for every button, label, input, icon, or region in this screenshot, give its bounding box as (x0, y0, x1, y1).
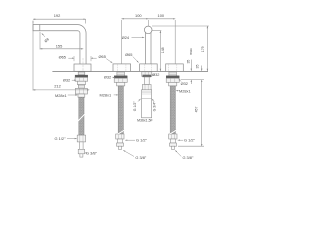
svg-text:G 1/2": G 1/2" (133, 101, 137, 112)
dim 192 (33, 19, 86, 23)
svg-text:M28x1: M28x1 (179, 89, 191, 94)
tip cap (32, 24, 34, 31)
deck line (52, 70, 208, 72)
spout circle (front) (144, 26, 152, 34)
dim 179 (152, 26, 209, 71)
svg-text:212: 212 (54, 84, 61, 89)
svg-text:179: 179 (201, 46, 205, 52)
front flange right (166, 64, 184, 72)
front column (145, 32, 151, 64)
dim 155 (40, 32, 83, 50)
svg-text:155: 155 (56, 44, 63, 49)
svg-text:Ø32: Ø32 (63, 78, 70, 83)
svg-text:35: 35 (187, 60, 191, 64)
side connector below nut (78, 94, 85, 97)
svg-text:M36x1,5F: M36x1,5F (137, 118, 153, 122)
svg-text:Ø24: Ø24 (122, 35, 130, 40)
svg-text:G 3/8": G 3/8" (135, 155, 147, 160)
svg-text:35: 35 (196, 65, 200, 69)
svg-text:Ø65: Ø65 (99, 54, 106, 59)
side G1/2 fitting (77, 135, 85, 142)
side G3/8 nut (78, 149, 84, 154)
dim 212 (33, 21, 89, 91)
svg-text:Ø65: Ø65 (59, 54, 66, 59)
svg-text:G 3/8": G 3/8" (182, 155, 194, 160)
svg-text:457: 457 (195, 107, 199, 113)
dim 100 100 (122, 19, 176, 64)
svg-text:Ø65: Ø65 (125, 52, 132, 57)
hidden lines in flanges (118, 64, 177, 71)
svg-text:G 1/2": G 1/2" (184, 138, 196, 143)
svg-text:Ø32: Ø32 (181, 81, 188, 86)
side hose (79, 97, 84, 135)
front flange left (113, 64, 131, 72)
dim 457 (178, 86, 204, 146)
side nut (75, 88, 87, 94)
svg-text:G 1/2": G 1/2" (136, 138, 148, 143)
svg-text:148: 148 (161, 47, 165, 53)
side tube (80, 142, 83, 149)
svg-text:100: 100 (135, 13, 142, 18)
side shank with thread (78, 72, 85, 75)
side nipple (80, 154, 83, 157)
dim 148 (152, 31, 162, 71)
centerline dashed (82, 58, 84, 93)
front flange center (140, 64, 158, 72)
svg-text:M28x1: M28x1 (55, 93, 67, 98)
svg-text:100: 100 (158, 13, 165, 18)
svg-text:Ø32: Ø32 (152, 72, 159, 77)
svg-text:G 3/8": G 3/8" (86, 151, 98, 156)
aerator joint (39, 24, 41, 31)
side flange (74, 64, 91, 71)
svg-text:G 1/2": G 1/2" (55, 136, 67, 141)
angled aerator label (42, 33, 50, 43)
svg-text:max: max (189, 48, 193, 55)
svg-text:192: 192 (54, 13, 61, 18)
svg-text:Ø32: Ø32 (104, 75, 111, 80)
hose break marks (79, 113, 177, 134)
spout tube outline (stroke trick) (33, 24, 83, 64)
svg-text:M28x1: M28x1 (99, 92, 111, 97)
svg-text:G 3/4": G 3/4" (153, 101, 157, 112)
